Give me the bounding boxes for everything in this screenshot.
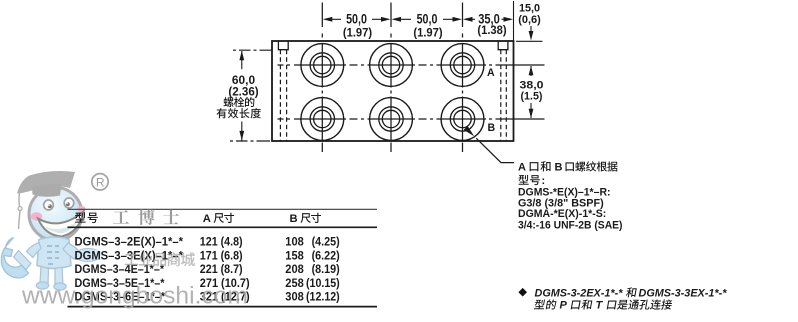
svg-text:258: 258 [285, 276, 304, 290]
mascot eyes [44, 200, 54, 210]
svg-text:158: 158 [285, 249, 304, 263]
centerline column 1 [321, 3, 323, 153]
left bolt hole hidden lines [280, 50, 286, 141]
centerline row B [278, 118, 545, 120]
svg-text:221 (8.7): 221 (8.7) [200, 262, 243, 276]
svg-text:(1.5): (1.5) [521, 90, 543, 102]
svg-text:A: A [203, 213, 211, 225]
mascot torso [37, 237, 71, 269]
svg-text:50,0: 50,0 [417, 11, 438, 26]
svg-text:15,0: 15,0 [519, 2, 540, 14]
svg-text:121 (4.8): 121 (4.8) [200, 235, 243, 249]
label 螺栓的 [223, 97, 254, 107]
table bottom rule [68, 306, 378, 308]
leader arrow to port B [476, 138, 514, 162]
mascot tassel [18, 193, 21, 206]
svg-text:B: B [488, 122, 496, 134]
svg-text:B: B [290, 213, 298, 225]
dimension 60,0 (2.36) bolt effective length [233, 49, 272, 51]
port top-right [441, 44, 484, 87]
mascot head [29, 188, 82, 241]
watermark registered trademark [92, 174, 108, 190]
svg-text:DGMA-*E(X)-1*-S:: DGMA-*E(X)-1*-S: [518, 208, 606, 220]
svg-text:208: 208 [285, 262, 304, 276]
mascot right arm [63, 243, 80, 259]
extension line top edge right [516, 40, 543, 42]
svg-text:(10.15): (10.15) [306, 276, 340, 290]
svg-text:(6.22): (6.22) [312, 249, 340, 263]
right bolt hole hidden lines [501, 50, 507, 141]
svg-text:3/4:-16 UNF-2B (SAE): 3/4:-16 UNF-2B (SAE) [518, 220, 623, 232]
mascot smile [38, 212, 84, 237]
right bolt counterbore [498, 41, 508, 50]
table header 型号 [75, 212, 98, 223]
svg-text:A: A [487, 67, 495, 79]
svg-text:www.gongboshi.com: www.gongboshi.com [21, 283, 248, 310]
svg-text:(1.97): (1.97) [413, 27, 442, 40]
svg-text:(8.19): (8.19) [312, 262, 340, 276]
svg-text:P: P [560, 300, 568, 312]
svg-text:308: 308 [285, 290, 304, 304]
extension line plate right edge [513, 1, 515, 41]
svg-text:DGMS-3-2EX-1*-*: DGMS-3-2EX-1*-* [535, 288, 624, 300]
svg-text::: : [542, 175, 546, 187]
dimension 50,0 (1.97) left span [325, 18, 388, 20]
port top-left [301, 44, 344, 87]
mascot wrench [1, 238, 28, 278]
svg-text:(0,6): (0,6) [518, 14, 541, 26]
svg-text:T: T [596, 300, 604, 312]
mascot left arm [27, 243, 42, 258]
mounting plate outline [272, 41, 514, 141]
dimension 50,0 (1.97) right span [394, 18, 459, 20]
svg-text:(12.12): (12.12) [306, 290, 340, 304]
label 有效长度 [217, 108, 261, 118]
table top rule [68, 208, 378, 210]
mascot buttons [47, 246, 59, 264]
note line 2 (型号:) [519, 175, 540, 185]
watermark 工博士 [113, 210, 129, 223]
svg-text:DGMS–3–3E(X)–1*–*: DGMS–3–3E(X)–1*–* [75, 249, 184, 263]
centerline column 2 [390, 3, 392, 153]
svg-text:50,0: 50,0 [346, 11, 367, 26]
watermark 工业品商城 [125, 252, 195, 266]
dimension 38,0 (1.5) [529, 66, 534, 76]
svg-text:DGMS–3–2E(X)–1*–*: DGMS–3–2E(X)–1*–* [75, 235, 184, 249]
centerline column 3 [462, 3, 464, 153]
port bottom-left [301, 98, 344, 141]
svg-text:(2.36): (2.36) [228, 86, 258, 99]
svg-text:171 (6.8): 171 (6.8) [200, 249, 243, 263]
mascot cheeks [31, 212, 42, 220]
svg-text:A: A [518, 162, 526, 174]
svg-text:(1.38): (1.38) [477, 24, 506, 37]
footnote bullet diamond [518, 288, 527, 297]
svg-text:B: B [555, 162, 563, 174]
svg-text:(1.97): (1.97) [343, 27, 372, 40]
port bottom-middle [370, 98, 413, 141]
table header rule [68, 226, 378, 228]
port bottom-right [441, 98, 484, 141]
svg-text:DGMS-3-3EX-1*-*: DGMS-3-3EX-1*-* [639, 288, 728, 300]
left bolt counterbore [278, 41, 288, 50]
watermark www.gongboshi.com [21, 283, 248, 310]
watermark mascot [1, 171, 103, 290]
footnote line 2 [534, 299, 557, 309]
port top-middle [370, 44, 413, 87]
mascot legs [40, 267, 49, 286]
mascot cap board [17, 171, 75, 193]
centerline row A [278, 64, 545, 66]
dimension 35,0 (1.38) [465, 18, 511, 20]
svg-text:(4.25): (4.25) [312, 235, 340, 249]
svg-text:108: 108 [285, 235, 304, 249]
svg-text:R: R [96, 175, 105, 189]
